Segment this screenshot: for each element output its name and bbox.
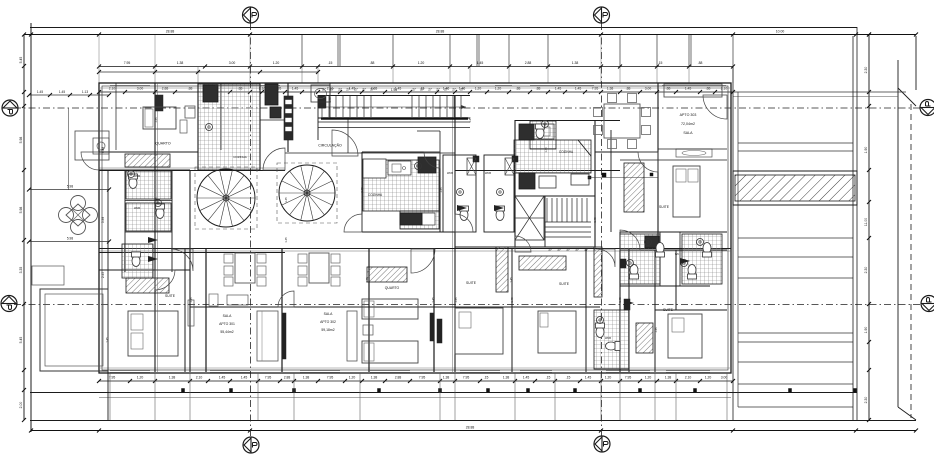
svg-text:1.38: 1.38	[443, 376, 450, 380]
wall horizontal 16 y247	[515, 246, 595, 248]
wall horizontal 26 y248.5	[99, 248, 731, 250]
toilet 8	[630, 265, 639, 280]
wall vertical 17 x282	[281, 248, 283, 372]
basin 7	[627, 260, 634, 267]
wall horizontal 22 y310	[655, 309, 727, 311]
kitchen3 stove black	[519, 124, 534, 140]
upper band verticals	[301, 35, 303, 66]
bath left 2 tiles	[126, 203, 171, 231]
wall vertical 25 x172	[171, 170, 173, 272]
svg-text:APTO 303: APTO 303	[680, 113, 697, 117]
svg-text:.88: .88	[666, 87, 671, 91]
porch vertical 3	[189, 373, 191, 420]
svg-text:WC: WC	[675, 252, 679, 256]
svg-text:SUITE: SUITE	[663, 308, 674, 312]
shower box 1	[467, 158, 476, 175]
porch vertical 6	[359, 373, 361, 420]
svg-text:5.98: 5.98	[19, 207, 23, 214]
porch vertical 11	[600, 373, 602, 420]
window bottom 6	[520, 370, 552, 372]
svg-text:3.00: 3.00	[645, 87, 652, 91]
dim line bottom inner	[99, 380, 733, 382]
garden dim vertical line	[68, 108, 70, 190]
wall horizontal 23 y170.5	[455, 170, 620, 172]
bed suite right	[538, 311, 576, 353]
wall horizontal 28 y170	[198, 169, 260, 171]
sala303 floor line	[658, 148, 727, 150]
wall vertical 5 x260	[259, 83, 261, 170]
bath suite tiles	[682, 234, 722, 284]
toilet 11	[606, 342, 621, 351]
wall vertical 29 x611	[610, 130, 612, 232]
tv bench 301	[227, 295, 248, 305]
gridline vertical 1	[250, 23, 252, 437]
svg-text:72,04m2: 72,04m2	[681, 122, 695, 126]
door arc 13	[411, 249, 435, 273]
dining set apt302	[309, 253, 329, 283]
kitchen 2 lower cabinets	[400, 211, 439, 229]
gridline horizontal A	[14, 304, 922, 306]
wall horizontal 7 y252.5	[99, 252, 285, 254]
kitchen 3 tiles right	[514, 140, 591, 173]
door arc 6	[81, 152, 99, 170]
wall vertical 33 x330	[329, 83, 331, 118]
right margin section line a	[733, 91, 906, 93]
wall horizontal 8 y95.5	[318, 95, 470, 97]
right margin line 8	[738, 361, 853, 363]
svg-text:1.90: 1.90	[864, 327, 868, 334]
bath small top tiles	[530, 121, 556, 149]
svg-text:WCB: WCB	[605, 336, 611, 340]
wall horizontal 25 y270	[99, 269, 190, 271]
door arc 3	[344, 214, 362, 232]
svg-text:27: 27	[436, 88, 440, 92]
basin 3	[457, 189, 464, 196]
door arc 12	[171, 249, 193, 271]
svg-text:1.20: 1.20	[137, 376, 144, 380]
svg-text:QUARTO: QUARTO	[155, 142, 170, 146]
wall horizontal 14 y247	[455, 246, 515, 248]
basin 2	[155, 200, 162, 207]
wall companion y170	[99, 167, 285, 169]
wall horizontal 15 y196	[515, 195, 595, 197]
wall vertical 23 x108	[107, 170, 109, 420]
grid bubble top 2	[594, 7, 610, 23]
window bottom 2	[210, 370, 250, 372]
svg-text:27: 27	[575, 248, 579, 252]
svg-text:1.45: 1.45	[685, 87, 692, 91]
svg-text:2.10: 2.10	[109, 87, 116, 91]
svg-text:.15: .15	[484, 376, 489, 380]
wall horizontal 17 y120.5	[515, 120, 620, 122]
wardrobe quarto hatch	[367, 267, 407, 282]
spiral stair 1	[197, 169, 255, 227]
porch vertical 4	[257, 373, 259, 420]
wall vertical 18 x369	[368, 248, 370, 372]
porch vertical 9	[514, 373, 516, 420]
basin 5	[645, 239, 652, 246]
wall vertical 3 x198	[197, 83, 199, 170]
window top 1	[110, 85, 150, 87]
wall horizontal 27 y120	[260, 119, 288, 121]
svg-text:1.90: 1.90	[864, 147, 868, 154]
svg-text:28.88: 28.88	[436, 30, 445, 34]
window sill top	[99, 87, 731, 89]
right margin line 10	[738, 406, 853, 408]
svg-text:1.45: 1.45	[575, 87, 582, 91]
svg-text:1.45: 1.45	[284, 237, 288, 243]
wall horizontal 24 y307	[190, 306, 600, 308]
spiral stair 2	[279, 165, 335, 221]
wall vertical 14 x676	[675, 250, 677, 310]
svg-text:7.95: 7.95	[109, 376, 116, 380]
hatched strip right	[733, 171, 857, 205]
svg-text:27: 27	[444, 88, 448, 92]
right margin vertical right	[852, 36, 854, 420]
kitchen 2 tiles central	[363, 160, 439, 211]
svg-text:SUITE: SUITE	[559, 282, 570, 286]
svg-text:1.45: 1.45	[523, 376, 530, 380]
lot boundary top line	[30, 27, 857, 29]
patio table	[71, 196, 86, 211]
window bottom 7	[606, 370, 650, 372]
bed quarto mid 2	[362, 341, 418, 363]
svg-text:1.38: 1.38	[169, 376, 176, 380]
svg-text:SUITE: SUITE	[466, 281, 477, 285]
wall horizontal 21 y232	[620, 231, 727, 233]
svg-text:.15: .15	[658, 61, 663, 65]
wall vertical 27 x660	[659, 232, 661, 286]
kitchen3 counter box 1	[539, 176, 556, 188]
wardrobe suite left hatch	[126, 278, 169, 293]
svg-text:11.00: 11.00	[864, 218, 868, 226]
wall horizontal 20 y286	[620, 285, 710, 287]
svg-text:2.88: 2.88	[162, 87, 169, 91]
svg-text:1.38: 1.38	[572, 61, 579, 65]
wall vertical 31 x545	[544, 196, 546, 247]
toilet 9	[688, 265, 697, 280]
planter left	[32, 266, 64, 285]
wall horizontal 6 y170.5	[99, 170, 285, 172]
wall horizontal 12 y152	[362, 151, 440, 153]
svg-text:.88: .88	[698, 61, 703, 65]
porch vertical 14	[675, 373, 677, 420]
svg-text:WCB: WCB	[134, 206, 140, 210]
lot right chamfer top	[898, 88, 916, 106]
svg-text:.88: .88	[536, 87, 541, 91]
svg-text:28.88: 28.88	[466, 426, 475, 430]
dim line right vertical	[868, 35, 870, 421]
svg-text:WCB: WCB	[447, 171, 453, 175]
bed suite far right	[668, 314, 702, 358]
svg-text:7.95: 7.95	[124, 61, 131, 65]
svg-text:APTO 301: APTO 301	[219, 322, 235, 326]
grid bubble bottom 1	[243, 437, 259, 453]
wall vertical 11 x595	[594, 120, 596, 247]
right margin line 2	[738, 150, 853, 152]
svg-text:.15: .15	[328, 61, 333, 65]
svg-text:SUITE: SUITE	[165, 294, 176, 298]
toilet 12	[536, 124, 545, 139]
dining set apt301	[235, 253, 255, 283]
kitchen2 cabinet white	[422, 213, 435, 225]
wardrobe col bath hatch	[594, 247, 602, 297]
svg-text:2.10: 2.10	[685, 376, 692, 380]
tv apt301	[188, 300, 194, 326]
door arc 4	[620, 230, 640, 250]
porch vertical 7	[439, 373, 441, 420]
armchair 301	[209, 294, 218, 306]
toilet 5	[496, 206, 505, 221]
door arc 5	[155, 270, 175, 290]
section marker squares	[602, 173, 606, 177]
dim line left section	[99, 71, 318, 73]
svg-text:2.00: 2.00	[19, 402, 23, 409]
window sill bottom	[99, 367, 731, 369]
svg-text:1.38: 1.38	[371, 376, 378, 380]
sofa apt301	[257, 311, 278, 361]
svg-text:7.95: 7.95	[419, 376, 426, 380]
svg-text:27: 27	[420, 88, 424, 92]
svg-text:2.88: 2.88	[284, 376, 291, 380]
bathtub top	[311, 85, 330, 102]
svg-text:28.88: 28.88	[166, 30, 175, 34]
dim extension lines row1	[98, 35, 100, 66]
stair mid treads	[546, 198, 548, 222]
dim line left vertical	[23, 35, 25, 421]
svg-text:COZINHA: COZINHA	[233, 155, 247, 159]
kitchen3 dark lower	[519, 173, 535, 189]
dim line top second	[99, 66, 733, 68]
svg-text:1.45: 1.45	[292, 87, 299, 91]
toilet 2	[156, 204, 165, 219]
svg-text:1.20: 1.20	[475, 87, 482, 91]
kitchen3 angled corner	[578, 140, 591, 156]
svg-text:27: 27	[460, 88, 464, 92]
dim extension lines row2	[98, 67, 100, 83]
wall vertical 15 x185	[184, 248, 186, 372]
svg-text:.88: .88	[370, 61, 375, 65]
dresser quarto	[185, 106, 195, 118]
toilet 1	[129, 174, 138, 189]
wall vertical 10 x515	[514, 120, 516, 247]
grid bubble right B	[920, 100, 934, 116]
svg-text:COZINHA: COZINHA	[368, 193, 383, 197]
svg-text:2.88: 2.88	[395, 376, 402, 380]
suite303 top wall	[620, 159, 727, 161]
garden dim line 2	[29, 241, 109, 243]
ladder heavy bar	[321, 117, 468, 120]
svg-text:.88: .88	[188, 87, 193, 91]
svg-text:1.20: 1.20	[349, 376, 356, 380]
kitchen 1 tiles	[198, 84, 260, 170]
grid bubble left B	[2, 100, 18, 116]
bed apt303	[673, 166, 700, 217]
svg-text:COZINHA: COZINHA	[559, 150, 574, 154]
right margin line 7	[738, 341, 853, 343]
wall horizontal 18 y152	[595, 151, 658, 153]
toilet 10	[596, 323, 605, 338]
wardrobe col suite1 hatch	[496, 247, 508, 292]
dresser apt303	[676, 149, 712, 157]
svg-text:27: 27	[412, 88, 416, 92]
svg-text:1.38: 1.38	[303, 376, 310, 380]
svg-text:10.00: 10.00	[776, 30, 785, 34]
svg-text:1.20: 1.20	[273, 61, 280, 65]
toilet 3	[132, 252, 141, 267]
svg-text:3.00: 3.00	[137, 87, 144, 91]
sidewalk posts	[182, 389, 185, 393]
bed quarto mid 1	[362, 299, 418, 319]
wall vertical 34 x348	[347, 118, 349, 153]
svg-text:QUARTO: QUARTO	[385, 286, 400, 290]
right margin vertical 856	[856, 27, 858, 420]
bed quarto topleft	[143, 107, 176, 129]
wall vertical 16 x206	[205, 248, 207, 372]
svg-text:1.38: 1.38	[665, 376, 672, 380]
svg-text:.15: .15	[546, 376, 551, 380]
lot right secondary line	[915, 36, 917, 90]
nightstand quarto	[363, 325, 373, 335]
door arc 2	[455, 214, 473, 232]
lot right tertiary line	[897, 60, 899, 407]
svg-text:27: 27	[428, 88, 432, 92]
porch vertical 8	[454, 373, 456, 420]
svg-text:27: 27	[566, 248, 570, 252]
svg-text:.15: .15	[566, 376, 571, 380]
lot boundary left line	[30, 23, 32, 432]
svg-text:27: 27	[584, 248, 588, 252]
svg-text:.88: .88	[706, 87, 711, 91]
building outer wall	[99, 83, 731, 373]
wall horizontal 4 y232	[125, 231, 172, 233]
svg-text:2.10: 2.10	[196, 376, 203, 380]
window bottom 5	[460, 370, 500, 372]
wall horizontal 10 y122	[318, 121, 470, 123]
svg-text:1.20: 1.20	[495, 87, 502, 91]
svg-text:1.45: 1.45	[555, 87, 562, 91]
appliance dark 6	[645, 236, 659, 248]
window top 3	[495, 85, 512, 87]
svg-text:3.35: 3.35	[19, 267, 23, 274]
grid bubble left A	[1, 296, 17, 312]
bath bottom right tiles	[594, 310, 629, 369]
appliance dark 2	[265, 84, 278, 105]
wall vertical 19 x434	[433, 248, 435, 372]
svg-text:.88: .88	[626, 87, 631, 91]
basin 4	[497, 189, 504, 196]
garden dim line 1	[29, 189, 109, 191]
svg-text:27: 27	[330, 88, 334, 92]
svg-text:7.95: 7.95	[592, 87, 599, 91]
door arc 9	[278, 291, 294, 307]
porch vertical 10	[554, 373, 556, 420]
svg-text:3.00: 3.00	[721, 376, 728, 380]
svg-text:5.98: 5.98	[101, 217, 105, 223]
wall vertical 24 x125	[124, 170, 126, 272]
window bottom 8	[666, 370, 710, 372]
basin 10	[542, 121, 549, 128]
svg-text:SALA: SALA	[223, 314, 232, 318]
wall vertical 28 x680	[679, 232, 681, 286]
svg-text:1.98: 1.98	[391, 88, 397, 92]
svg-text:3.00: 3.00	[229, 61, 236, 65]
garden dim top	[29, 94, 109, 96]
window top 2	[215, 85, 280, 87]
dining table apt303	[604, 104, 640, 138]
right margin line 6	[738, 332, 853, 334]
wall companion x155	[157, 83, 159, 372]
svg-text:1.45: 1.45	[585, 376, 592, 380]
right margin line 1	[738, 142, 853, 144]
grid bubble bottom 2	[594, 436, 610, 452]
right margin vertical pair	[732, 66, 734, 420]
lot bottom line	[30, 420, 916, 422]
kitchen2 island white	[363, 159, 386, 178]
wall vertical 2 x190	[189, 170, 191, 372]
bed suite mid	[455, 308, 503, 354]
kitchen2 sink unit	[388, 161, 411, 175]
window top 5	[662, 85, 726, 87]
wall vertical 21 x586	[585, 248, 587, 372]
straight stair corridor	[321, 96, 323, 117]
sidewalk line bottom	[30, 392, 857, 394]
garden L structure	[75, 131, 109, 160]
door leaf 6	[624, 300, 634, 306]
bath left 1 tiles	[126, 171, 171, 199]
door leaf 5	[680, 258, 690, 264]
svg-text:7.95: 7.95	[327, 376, 334, 380]
grid bubble top 1	[243, 7, 259, 23]
svg-text:1.38: 1.38	[503, 376, 510, 380]
basin 1	[128, 171, 135, 178]
black leaf suite2a	[620, 259, 626, 268]
porch vertical 15	[726, 373, 728, 420]
porch vertical 2	[154, 373, 156, 420]
corridor door top	[439, 131, 441, 153]
shower box 2	[505, 158, 514, 175]
svg-text:1.20: 1.20	[418, 61, 425, 65]
wall vertical 1 x155	[154, 83, 156, 372]
wc black blob 1	[473, 156, 479, 162]
wall vertical 8 x440	[439, 152, 441, 232]
black leaf suite2b	[624, 299, 630, 310]
stair mid wedge	[515, 196, 544, 240]
kitchen3 sink white	[534, 124, 554, 139]
toilet 4	[460, 206, 469, 221]
pool bottom left	[40, 289, 108, 371]
door arc 1	[263, 148, 285, 170]
svg-text:SUITE: SUITE	[659, 205, 670, 209]
svg-text:2.30: 2.30	[864, 397, 868, 404]
wall vertical 4 x221	[220, 83, 222, 150]
door arc 10	[424, 152, 440, 168]
door leaf 3	[457, 205, 467, 211]
door arc 8	[515, 236, 531, 252]
wall horizontal 13 y232	[362, 231, 455, 233]
wall vertical 26 x658	[657, 83, 659, 252]
wall vertical 32 x116	[115, 83, 117, 150]
svg-text:27: 27	[557, 248, 561, 252]
toilet 7	[703, 243, 712, 258]
basin 8	[681, 260, 688, 267]
svg-text:2.30: 2.30	[864, 267, 868, 274]
svg-text:27: 27	[362, 88, 366, 92]
svg-text:7.95: 7.95	[625, 376, 632, 380]
gridline horizontal B	[14, 107, 920, 109]
wall companion x455	[452, 95, 454, 372]
sofa apt303 top	[664, 84, 722, 97]
